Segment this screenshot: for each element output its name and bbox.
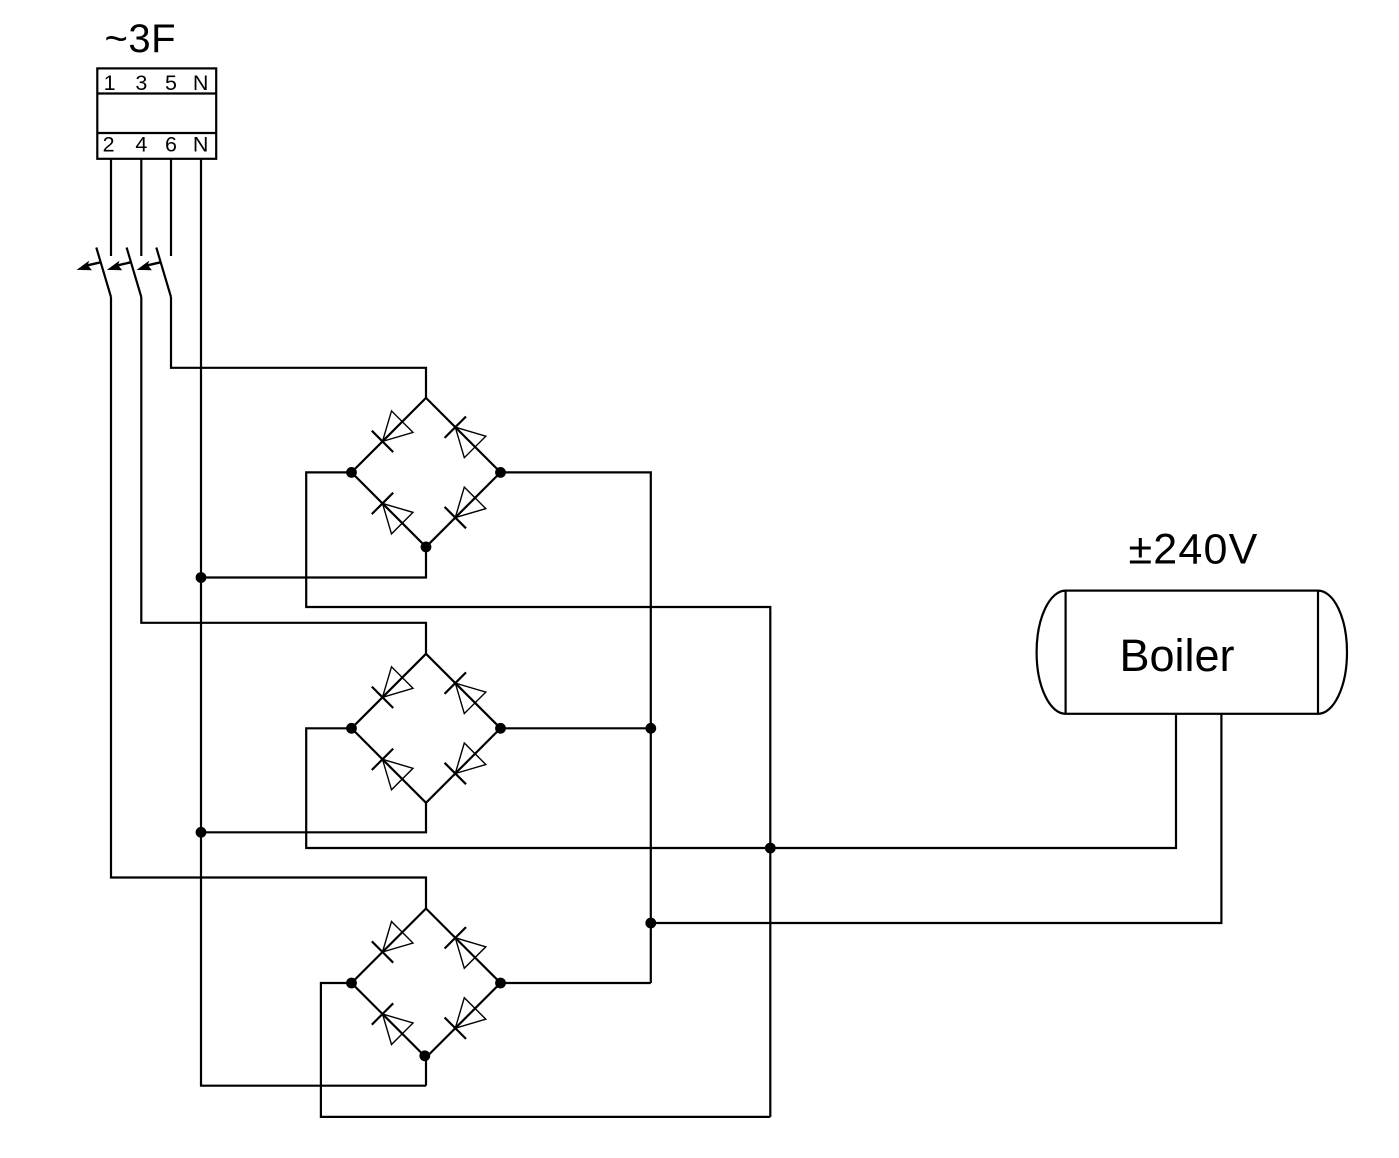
svg-text:N: N: [193, 71, 209, 95]
svg-text:2: 2: [103, 132, 115, 156]
svg-text:N: N: [193, 132, 209, 156]
svg-text:Boiler: Boiler: [1119, 630, 1234, 681]
svg-text:~3F: ~3F: [105, 17, 177, 61]
svg-text:5: 5: [165, 71, 177, 95]
svg-text:1: 1: [104, 71, 116, 95]
svg-text:3: 3: [135, 71, 147, 95]
svg-text:±240V: ±240V: [1128, 526, 1258, 574]
svg-text:4: 4: [135, 132, 147, 156]
svg-text:6: 6: [165, 132, 177, 156]
